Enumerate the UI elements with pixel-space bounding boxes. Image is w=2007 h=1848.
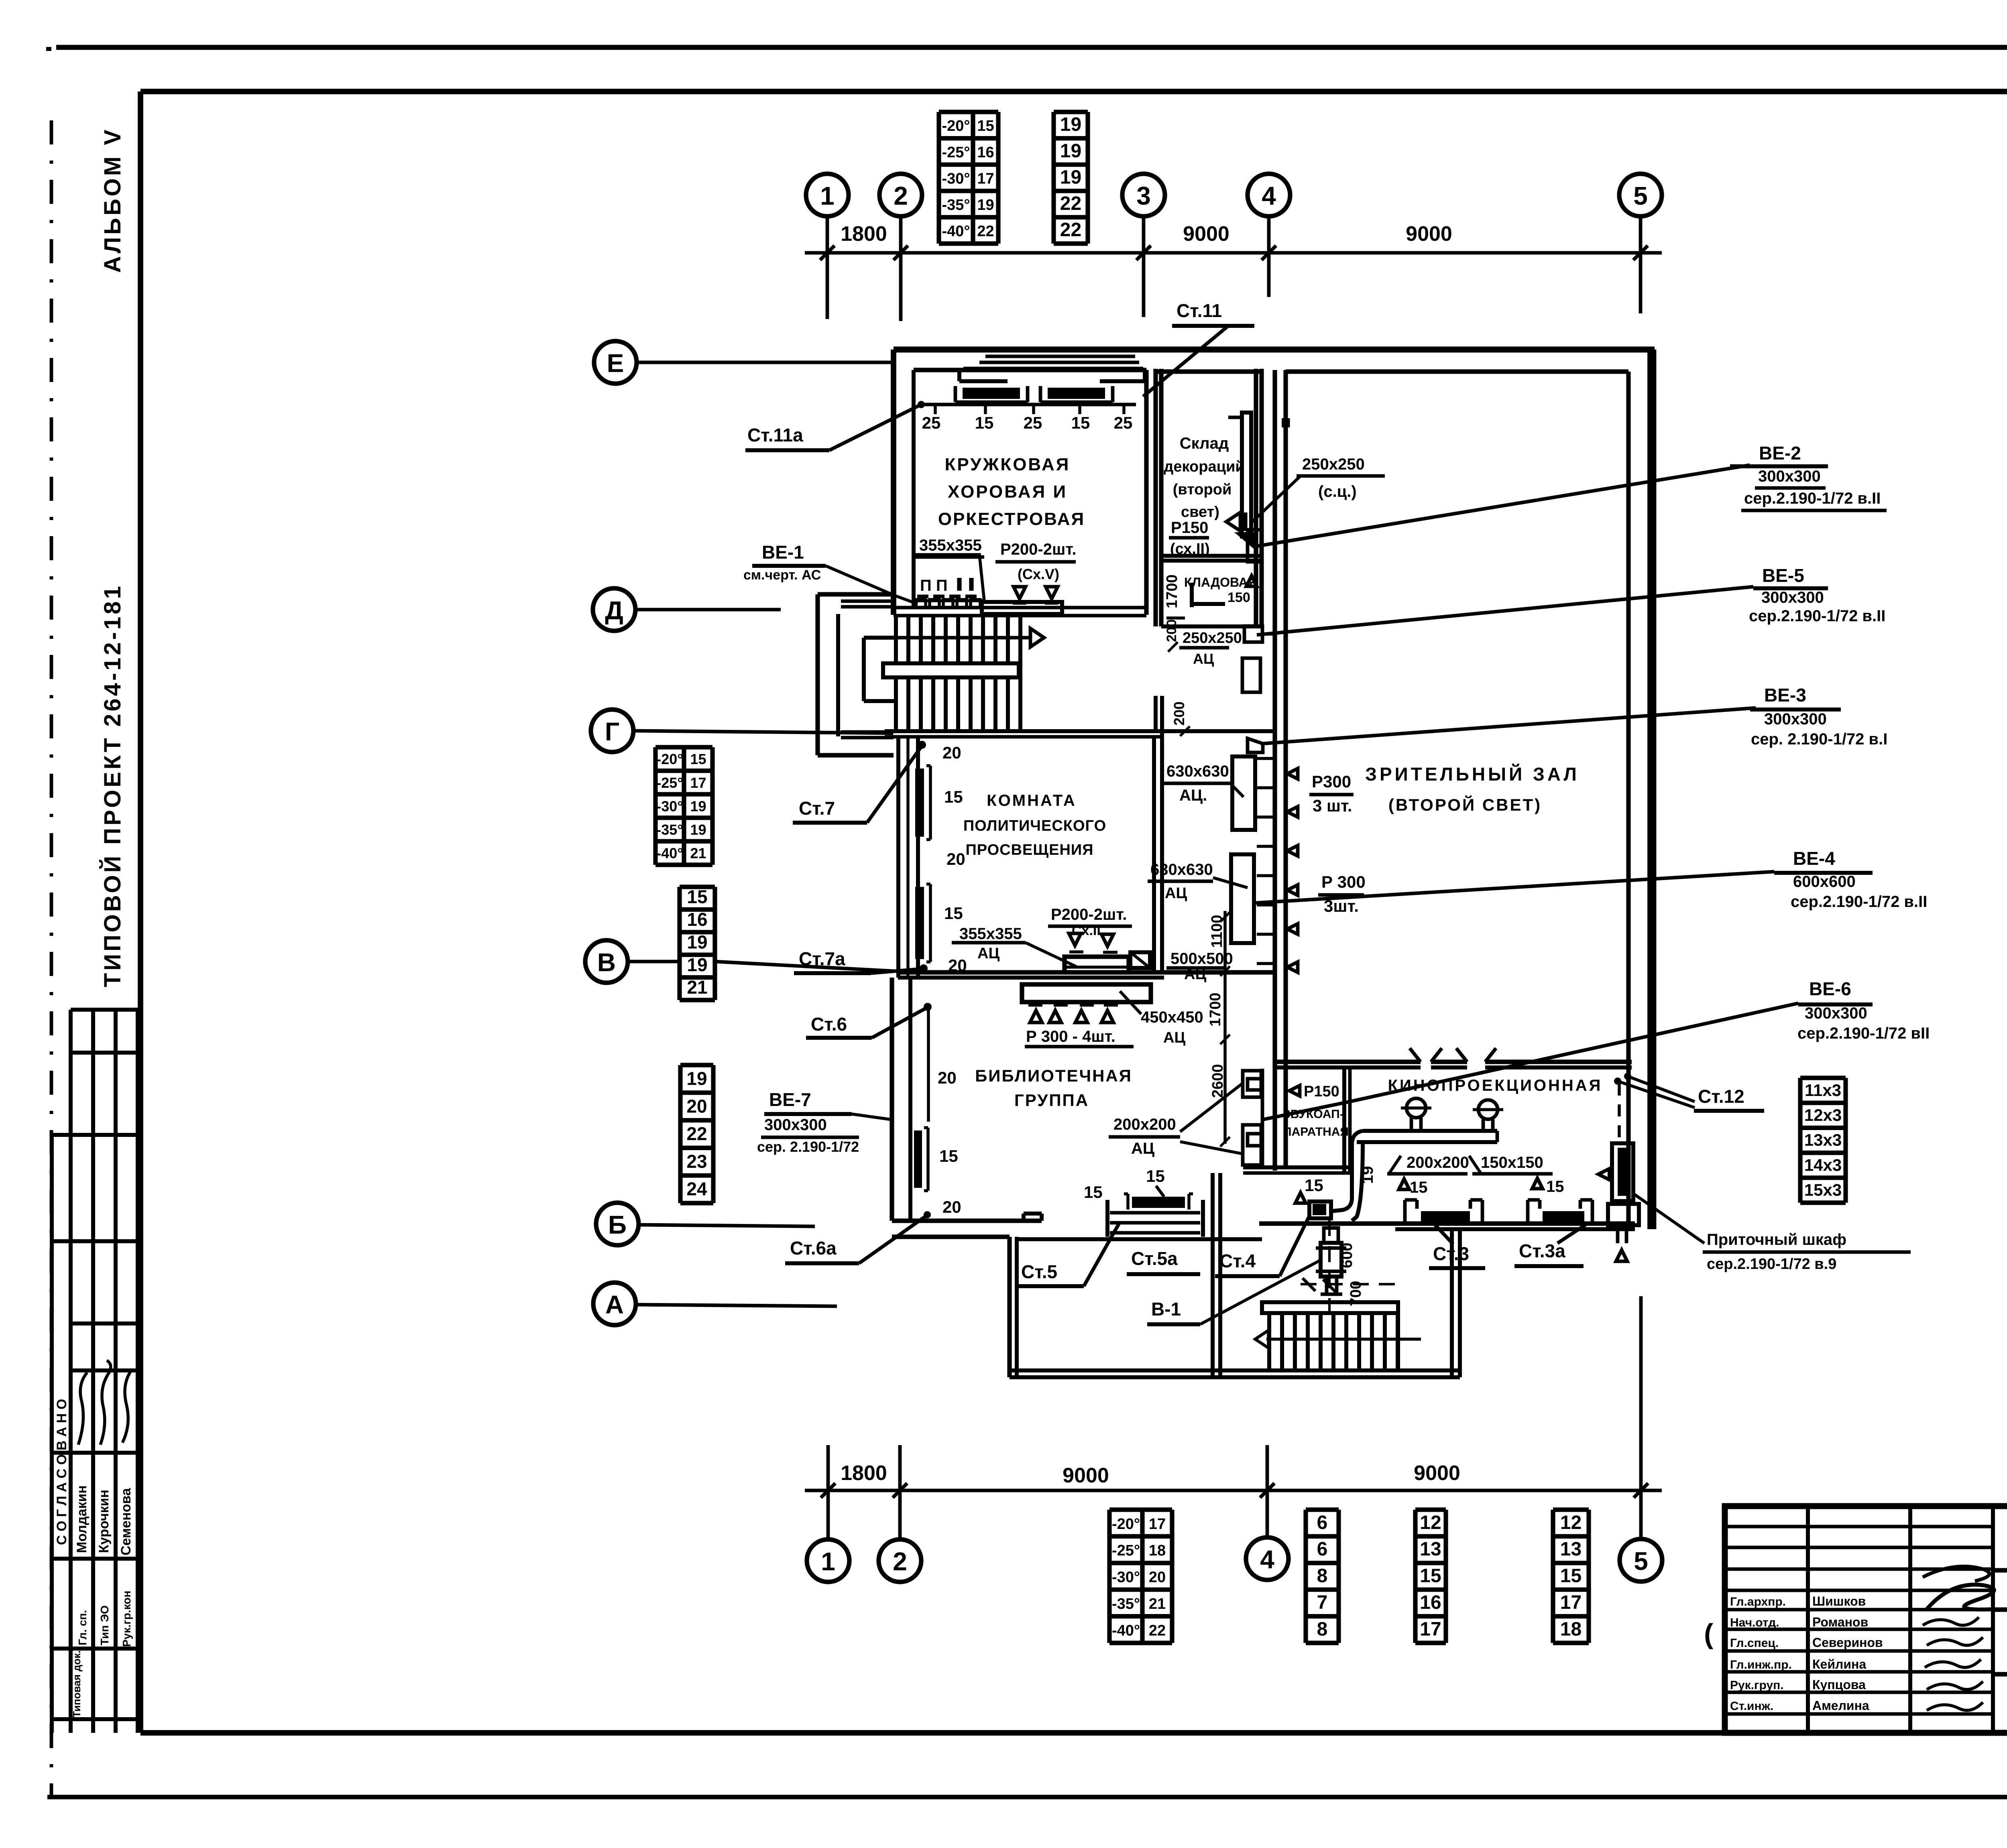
radiator top-left 2 xyxy=(1048,388,1105,399)
svg-text:9000: 9000 xyxy=(1414,1462,1460,1485)
svg-text:Склад: Склад xyxy=(1180,435,1229,452)
svg-text:Тип ЭО: Тип ЭО xyxy=(98,1605,111,1645)
svg-text:23: 23 xyxy=(686,1151,707,1172)
polit room left wall xyxy=(896,737,900,978)
wall grille ticks xyxy=(1257,757,1277,760)
svg-text:20: 20 xyxy=(948,956,967,975)
VE-1 small boxes row xyxy=(916,600,926,608)
svg-text:Нач.отд.: Нач.отд. xyxy=(1730,1616,1779,1629)
axis Е circle xyxy=(594,341,637,384)
svg-text:22: 22 xyxy=(1060,220,1081,241)
svg-text:-25°: -25° xyxy=(1112,1542,1140,1559)
svg-text:9000: 9000 xyxy=(1063,1464,1109,1487)
svg-text:200: 200 xyxy=(1171,701,1187,726)
auditorium east wall inner xyxy=(1626,372,1630,1224)
pritochny shkaf cabinet xyxy=(1612,1143,1633,1201)
svg-text:Ст.6: Ст.6 xyxy=(811,1014,847,1035)
svg-text:1700: 1700 xyxy=(1164,574,1181,608)
nabla symbols lower xyxy=(1069,933,1081,945)
kino duct horizontal xyxy=(1363,1129,1497,1133)
outer left dash-dot edge xyxy=(50,120,53,1797)
svg-text:2600: 2600 xyxy=(1209,1064,1226,1098)
svg-text:(: ( xyxy=(1704,1618,1714,1649)
svg-text:-35°: -35° xyxy=(1112,1596,1140,1612)
bottom dimension line xyxy=(805,1489,1662,1492)
stair mid landing boundary xyxy=(862,638,866,701)
svg-text:15: 15 xyxy=(975,413,994,432)
svg-text:Р200-2шт.: Р200-2шт. xyxy=(1000,541,1077,558)
svg-text:200x200: 200x200 xyxy=(1407,1154,1469,1171)
svg-text:Гл. сп.: Гл. сп. xyxy=(76,1610,89,1645)
svg-text:15: 15 xyxy=(944,904,963,923)
svg-text:ГРУППА: ГРУППА xyxy=(1014,1091,1089,1110)
svg-text:5: 5 xyxy=(1634,1547,1648,1576)
svg-text:АЦ.: АЦ. xyxy=(1179,787,1207,804)
V-1 fan assembly xyxy=(1321,1243,1341,1277)
svg-text:Гл.спец.: Гл.спец. xyxy=(1730,1637,1779,1650)
svg-text:19: 19 xyxy=(1060,167,1081,188)
svg-text:16: 16 xyxy=(1420,1592,1441,1613)
svg-text:3 шт.: 3 шт. xyxy=(1313,796,1352,815)
radiator polit wall 1 xyxy=(915,768,924,837)
svg-text:19: 19 xyxy=(977,197,994,213)
VE-1 dashes xyxy=(917,595,928,598)
biblio bottom wall with step xyxy=(892,1218,1042,1223)
bottom single-column table 3 xyxy=(1553,1507,1589,1512)
zvuko vent box lower xyxy=(1243,1125,1261,1165)
bottom temperature table xyxy=(1109,1507,1172,1512)
svg-text:22: 22 xyxy=(1149,1622,1166,1639)
svg-text:22: 22 xyxy=(686,1123,707,1144)
svg-text:АЦ: АЦ xyxy=(977,945,999,962)
radiator polit wall 2 xyxy=(915,887,924,959)
svg-text:150x150: 150x150 xyxy=(1481,1154,1543,1171)
svg-text:1800: 1800 xyxy=(841,1462,887,1485)
svg-text:630x630: 630x630 xyxy=(1166,762,1229,780)
svg-text:17: 17 xyxy=(1560,1592,1582,1613)
sklad triangle-bar symbol xyxy=(1226,512,1240,531)
svg-text:19: 19 xyxy=(690,798,706,814)
stage front band lines xyxy=(985,355,1135,358)
svg-text:1700: 1700 xyxy=(1207,992,1224,1027)
svg-text:Курочкин: Курочкин xyxy=(96,1490,112,1553)
svg-text:сер. 2.190-1/72 в.I: сер. 2.190-1/72 в.I xyxy=(1751,730,1887,748)
svg-text:Е: Е xyxy=(607,349,624,378)
grille stack rect 1 xyxy=(1232,756,1255,830)
svg-text:КРУЖКОВАЯ: КРУЖКОВАЯ xyxy=(945,455,1071,474)
axis Г circle xyxy=(591,710,633,752)
svg-text:15: 15 xyxy=(1071,413,1090,432)
svg-text:19: 19 xyxy=(687,931,707,952)
svg-text:АЦ: АЦ xyxy=(1184,966,1206,983)
svg-text:Приточный шкаф: Приточный шкаф xyxy=(1707,1231,1846,1248)
svg-text:300x300: 300x300 xyxy=(1761,589,1824,606)
svg-text:15: 15 xyxy=(1410,1179,1428,1196)
corridor vertical dim line xyxy=(1223,911,1227,1144)
svg-text:Сх.II: Сх.II xyxy=(1072,923,1101,938)
dashes under duct xyxy=(1028,1003,1042,1007)
svg-text:А: А xyxy=(605,1290,624,1319)
svg-text:25: 25 xyxy=(1024,413,1042,432)
vestibule right wall xyxy=(1450,1229,1454,1377)
svg-text:ЗРИТЕЛЬНЫЙ ЗАЛ: ЗРИТЕЛЬНЫЙ ЗАЛ xyxy=(1365,764,1580,785)
svg-text:150: 150 xyxy=(1227,590,1250,605)
kino room top wall (auditorium south) xyxy=(1277,1059,1421,1064)
svg-text:БИБЛИОТЕЧНАЯ: БИБЛИОТЕЧНАЯ xyxy=(975,1066,1132,1085)
outer top border line xyxy=(56,45,2007,50)
svg-text:Р200-2шт.: Р200-2шт. xyxy=(1051,906,1127,923)
bottom stair arrow xyxy=(1266,1338,1421,1341)
svg-text:сер.2.190-1/72 вII: сер.2.190-1/72 вII xyxy=(1797,1025,1930,1042)
svg-text:Д: Д xyxy=(605,596,623,625)
svg-text:300x300: 300x300 xyxy=(1805,1004,1867,1022)
svg-text:11x3: 11x3 xyxy=(1805,1081,1841,1100)
axis 2 circle top xyxy=(879,174,922,216)
svg-text:20: 20 xyxy=(947,850,965,868)
title object name row xyxy=(1993,1607,2007,1612)
svg-text:ПАРАТНАЯ: ПАРАТНАЯ xyxy=(1283,1125,1349,1138)
svg-text:17: 17 xyxy=(977,170,994,187)
svg-text:Молдакин: Молдакин xyxy=(74,1485,90,1553)
approval stamp table xyxy=(71,1008,138,1012)
svg-text:1100: 1100 xyxy=(1209,915,1225,948)
svg-text:ВЕ-2: ВЕ-2 xyxy=(1759,443,1801,464)
svg-text:17: 17 xyxy=(1420,1618,1441,1640)
svg-text:(второй: (второй xyxy=(1173,481,1232,498)
svg-text:15: 15 xyxy=(944,787,963,806)
svg-text:Ст.инж.: Ст.инж. xyxy=(1730,1700,1773,1713)
svg-text:сер.2.190-1/72 в.9: сер.2.190-1/72 в.9 xyxy=(1707,1256,1836,1273)
svg-text:ВЕ-1: ВЕ-1 xyxy=(762,542,804,563)
radiator biblio wall xyxy=(914,1130,922,1188)
polit room top wall xyxy=(885,729,1275,733)
kino projector port 1 xyxy=(1407,1098,1426,1118)
building left wall upper (circle room) xyxy=(891,350,896,615)
svg-text:25: 25 xyxy=(1114,413,1133,432)
svg-text:20: 20 xyxy=(942,743,961,762)
svg-text:15: 15 xyxy=(1084,1183,1103,1202)
bottom single-column table 2 xyxy=(1415,1507,1446,1512)
svg-text:1800: 1800 xyxy=(841,222,887,246)
svg-text:(ВТОРОЙ СВЕТ): (ВТОРОЙ СВЕТ) xyxy=(1388,795,1542,814)
svg-text:сер. 2.190-1/72: сер. 2.190-1/72 xyxy=(757,1138,859,1155)
vestibule left wall xyxy=(1007,1237,1012,1377)
svg-text:16: 16 xyxy=(687,909,707,930)
svg-text:П П: П П xyxy=(920,577,948,594)
svg-text:22: 22 xyxy=(1060,193,1081,214)
biblio room left wall xyxy=(890,978,894,1221)
svg-text:19: 19 xyxy=(1060,140,1081,162)
svg-text:Рук.груп.: Рук.груп. xyxy=(1730,1679,1784,1692)
left temperature table xyxy=(655,745,712,749)
top temperature table xyxy=(939,110,998,114)
polit room bottom wall xyxy=(898,970,1275,974)
title drawing name row xyxy=(1993,1672,2007,1676)
svg-text:13: 13 xyxy=(1560,1539,1582,1560)
svg-text:Ст.11: Ст.11 xyxy=(1177,300,1222,321)
axis 1 circle bottom xyxy=(807,1539,849,1582)
svg-text:свет): свет) xyxy=(1181,504,1219,520)
svg-text:(Сх.V): (Сх.V) xyxy=(1018,566,1059,582)
label VE-6 xyxy=(1262,1102,1350,1120)
svg-text:1: 1 xyxy=(821,1547,835,1576)
svg-text:18: 18 xyxy=(1149,1542,1166,1559)
VE-2 source box xyxy=(1248,530,1262,562)
svg-text:19: 19 xyxy=(1060,114,1081,135)
svg-text:300x300: 300x300 xyxy=(764,1116,827,1134)
svg-text:Ст.11а: Ст.11а xyxy=(747,425,803,445)
svg-text:Типовая док.: Типовая док. xyxy=(71,1650,83,1718)
svg-text:ВЕ-6: ВЕ-6 xyxy=(1809,978,1851,999)
kino duct elbow down xyxy=(1332,1131,1363,1211)
polit room right wall / shaft xyxy=(1152,737,1156,972)
svg-text:Ст.5а: Ст.5а xyxy=(1131,1248,1178,1269)
kino room bottom wall xyxy=(1259,1221,1635,1226)
svg-text:АЦ: АЦ xyxy=(1165,885,1187,902)
svg-text:ПРОСВЕЩЕНИЯ: ПРОСВЕЩЕНИЯ xyxy=(965,842,1093,858)
svg-text:АЦ: АЦ xyxy=(1131,1140,1154,1157)
svg-text:Ст.7а: Ст.7а xyxy=(799,948,845,969)
axis В circle xyxy=(585,940,628,983)
svg-text:С О Г Л А С О В А Н О: С О Г Л А С О В А Н О xyxy=(54,1399,69,1545)
svg-text:-25°: -25° xyxy=(942,144,970,161)
svg-text:-20°: -20° xyxy=(942,118,970,134)
svg-text:сер.2.190-1/72 в.II: сер.2.190-1/72 в.II xyxy=(1791,893,1927,911)
svg-text:сер.2.190-1/72 в.II: сер.2.190-1/72 в.II xyxy=(1749,607,1885,625)
svg-text:22: 22 xyxy=(977,223,994,240)
svg-text:-30°: -30° xyxy=(656,798,683,814)
sklad duct shaft xyxy=(1242,413,1251,537)
svg-text:15x3: 15x3 xyxy=(1804,1181,1842,1199)
svg-text:АЛЬБОМ V: АЛЬБОМ V xyxy=(100,127,126,273)
svg-text:Гл.инж.пр.: Гл.инж.пр. xyxy=(1730,1658,1792,1671)
svg-text:15: 15 xyxy=(1546,1178,1564,1195)
svg-text:21: 21 xyxy=(690,845,706,862)
door swing ticks kino xyxy=(1410,1048,1421,1062)
axis 5 circle bottom xyxy=(1620,1539,1662,1582)
svg-text:-25°: -25° xyxy=(656,775,683,791)
svg-text:20: 20 xyxy=(1149,1569,1166,1586)
left single-column table 1 xyxy=(680,884,715,889)
corridor wall over stairs xyxy=(1017,1237,1262,1241)
svg-text:4: 4 xyxy=(1260,1545,1274,1574)
building right outer wall xyxy=(1647,350,1653,1229)
kino radiator 2 xyxy=(1526,1200,1530,1224)
svg-text:20: 20 xyxy=(942,1197,961,1216)
svg-text:Северинов: Северинов xyxy=(1812,1635,1883,1650)
axis Д circle xyxy=(593,588,635,631)
stamp signatures (handwriting squiggles) xyxy=(78,1372,87,1445)
small duct box with flag xyxy=(1130,952,1150,968)
right riser table 11x3..15x3 xyxy=(1800,1075,1846,1080)
svg-text:600x600: 600x600 xyxy=(1793,873,1856,890)
svg-text:20: 20 xyxy=(686,1096,707,1116)
svg-text:Кейлина: Кейлина xyxy=(1812,1657,1866,1671)
svg-text:2: 2 xyxy=(894,181,908,210)
svg-text:Ст.5: Ст.5 xyxy=(1021,1261,1057,1282)
title block left section verticals xyxy=(1806,1506,1810,1733)
stair treads xyxy=(894,616,898,732)
svg-text:Р 300 - 4шт.: Р 300 - 4шт. xyxy=(1026,1028,1115,1045)
axis 5 circle top xyxy=(1619,174,1662,216)
vestibule bottom wall xyxy=(1010,1368,1460,1372)
axis Б circle xyxy=(596,1203,639,1245)
svg-text:-40°: -40° xyxy=(942,223,970,240)
kruzhkovaya bottom wall / stair top wall xyxy=(894,606,1146,610)
svg-text:21: 21 xyxy=(687,977,707,998)
svg-text:Рук.гр.кон: Рук.гр.кон xyxy=(120,1591,133,1647)
bottom stair treads xyxy=(1267,1313,1271,1370)
VE-3 source fitting xyxy=(1248,738,1263,752)
svg-text:Ст.4: Ст.4 xyxy=(1219,1250,1256,1271)
triangles P300-4sht xyxy=(1030,1010,1042,1023)
svg-text:АЦ: АЦ xyxy=(1193,651,1214,667)
nabla symbols upper xyxy=(1014,587,1026,599)
svg-text:19: 19 xyxy=(690,821,706,838)
tambour inner wall xyxy=(1396,1313,1400,1370)
svg-text:-30°: -30° xyxy=(942,170,970,187)
top single-column table xyxy=(1054,110,1088,114)
svg-text:13: 13 xyxy=(1420,1539,1441,1560)
svg-text:17: 17 xyxy=(690,775,706,791)
svg-text:15: 15 xyxy=(690,751,706,767)
V-1 center dashes xyxy=(1301,1283,1397,1285)
sklad east wall xyxy=(1254,369,1258,626)
svg-text:Ст.3: Ст.3 xyxy=(1433,1243,1469,1264)
svg-text:24: 24 xyxy=(686,1179,707,1199)
svg-text:ТИПОВОЙ ПРОЕКТ 264-12-181: ТИПОВОЙ ПРОЕКТ 264-12-181 xyxy=(100,583,126,987)
svg-text:ВЕ-5: ВЕ-5 xyxy=(1762,565,1804,586)
svg-text:Р150: Р150 xyxy=(1171,519,1208,537)
svg-text:Семенова: Семенова xyxy=(118,1488,134,1555)
bottom single-column table 1 xyxy=(1306,1507,1339,1512)
svg-text:19: 19 xyxy=(687,954,707,975)
svg-text:12x3: 12x3 xyxy=(1804,1106,1842,1124)
left single-column table 2 xyxy=(680,1063,713,1067)
kruzhkovaya right wall xyxy=(1144,370,1148,615)
svg-text:355x355: 355x355 xyxy=(919,537,982,554)
title signatures column squiggles xyxy=(1923,1617,1979,1625)
svg-text:ВЕ-7: ВЕ-7 xyxy=(769,1089,811,1110)
biblio east wall xyxy=(1211,1173,1215,1377)
svg-text:14x3: 14x3 xyxy=(1804,1155,1842,1174)
svg-text:Р300: Р300 xyxy=(1312,772,1351,791)
grille stack rect 2 xyxy=(1231,854,1254,943)
axis 3 circle top xyxy=(1122,174,1165,216)
svg-text:ВЕ-4: ВЕ-4 xyxy=(1793,848,1835,869)
svg-text:300x300: 300x300 xyxy=(1758,468,1821,485)
svg-text:25: 25 xyxy=(922,413,941,432)
svg-text:355x355: 355x355 xyxy=(959,925,1022,943)
inner frame xyxy=(140,89,2007,94)
svg-text:-30°: -30° xyxy=(1112,1569,1140,1586)
shkaf lower box xyxy=(1608,1204,1639,1225)
svg-text:5: 5 xyxy=(1633,181,1648,210)
svg-text:200: 200 xyxy=(1164,619,1179,642)
svg-text:1: 1 xyxy=(820,181,835,210)
svg-text:17: 17 xyxy=(1149,1516,1166,1533)
svg-text:21: 21 xyxy=(1149,1596,1166,1612)
svg-text:В-1: В-1 xyxy=(1151,1299,1181,1319)
svg-text:250x250: 250x250 xyxy=(1183,630,1242,646)
svg-text:4: 4 xyxy=(1262,181,1276,210)
svg-text:19: 19 xyxy=(686,1068,707,1089)
svg-text:ХОРОВАЯ И: ХОРОВАЯ И xyxy=(948,482,1067,502)
svg-text:8: 8 xyxy=(1317,1565,1328,1587)
axis А circle xyxy=(593,1283,636,1325)
VE-1 chamber outline xyxy=(914,555,984,601)
svg-text:6: 6 xyxy=(1317,1539,1328,1560)
axis 4 circle bottom xyxy=(1246,1537,1288,1580)
svg-text:18: 18 xyxy=(1560,1618,1582,1640)
title block outer frame xyxy=(1725,1506,2007,1733)
svg-text:Р150: Р150 xyxy=(1304,1083,1339,1100)
label VE-5 xyxy=(1257,587,1753,635)
pritochny shkaf dashed riser xyxy=(1618,1084,1621,1146)
svg-text:В: В xyxy=(597,948,616,977)
svg-text:Купцова: Купцова xyxy=(1812,1677,1866,1692)
svg-text:АЦ: АЦ xyxy=(1163,1029,1185,1046)
svg-text:-40°: -40° xyxy=(656,845,683,862)
svg-text:15: 15 xyxy=(977,118,994,134)
supply box upper xyxy=(982,602,1062,614)
svg-text:Ст.7: Ст.7 xyxy=(799,798,835,819)
svg-text:15: 15 xyxy=(1560,1565,1582,1587)
V-1 cross ticks xyxy=(1303,1278,1315,1291)
svg-text:7: 7 xyxy=(1317,1592,1328,1613)
radiator top-left 1 xyxy=(963,388,1020,399)
svg-text:12: 12 xyxy=(1420,1512,1441,1533)
svg-text:200x200: 200x200 xyxy=(1113,1116,1176,1133)
svg-text:Р 300: Р 300 xyxy=(1321,872,1366,891)
sklad bottom wall xyxy=(1161,554,1262,558)
svg-text:ПОЛИТИЧЕСКОГО: ПОЛИТИЧЕСКОГО xyxy=(963,817,1106,834)
svg-text:250x250: 250x250 xyxy=(1302,455,1365,473)
svg-text:Гл.архпр.: Гл.архпр. xyxy=(1730,1595,1786,1608)
svg-text:Г: Г xyxy=(605,717,619,746)
sklad west wall xyxy=(1153,369,1158,626)
svg-text:-35°: -35° xyxy=(656,821,683,838)
svg-text:13x3: 13x3 xyxy=(1804,1130,1842,1149)
zvuko vent box upper xyxy=(1243,1071,1261,1097)
axis 1 circle top xyxy=(806,174,849,216)
svg-text:2: 2 xyxy=(893,1547,907,1576)
svg-text:450x450: 450x450 xyxy=(1141,1008,1203,1026)
St.4 duct xyxy=(1309,1202,1331,1218)
svg-text:см.черт. АС: см.черт. АС xyxy=(743,567,821,583)
axis 2 circle bottom xyxy=(879,1539,921,1582)
radiator St.5a assembly xyxy=(1105,1200,1109,1237)
svg-text:(с.ц.): (с.ц.) xyxy=(1318,483,1357,500)
top dimension line xyxy=(805,251,1662,255)
svg-text:600: 600 xyxy=(1339,1243,1356,1268)
title block left section rows xyxy=(1725,1525,1993,1529)
svg-text:декораций: декораций xyxy=(1164,458,1244,475)
svg-text:п: п xyxy=(1280,412,1291,431)
svg-text:15: 15 xyxy=(939,1147,958,1165)
svg-text:3: 3 xyxy=(1136,181,1151,210)
svg-text:630x630: 630x630 xyxy=(1150,861,1213,878)
svg-text:16: 16 xyxy=(977,144,994,161)
kruzhkovaya inner top wall xyxy=(914,368,1146,372)
svg-text:-20°: -20° xyxy=(1112,1516,1140,1533)
building top outer wall xyxy=(894,347,1655,353)
svg-text:6: 6 xyxy=(1317,1512,1328,1533)
svg-text:19: 19 xyxy=(1359,1166,1376,1184)
svg-text:Ст.6а: Ст.6а xyxy=(790,1238,837,1258)
zvukoapparatnaya walls xyxy=(1261,1069,1264,1166)
label VE-3 xyxy=(1263,708,1756,744)
